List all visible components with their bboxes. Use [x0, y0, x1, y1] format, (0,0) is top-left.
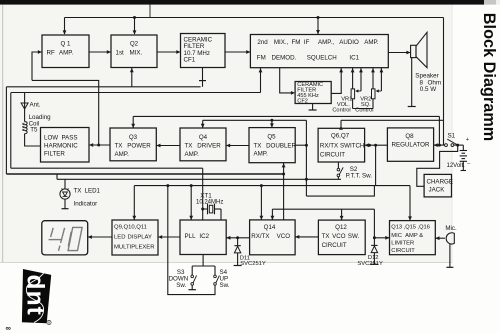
switch S4 UP	[214, 266, 216, 275]
block Q5 TX doubler amp	[249, 128, 295, 163]
node l4 PLL	[190, 184, 193, 187]
antenna Ant.	[24, 93, 26, 104]
wire riser into Q2 bottom	[131, 68, 133, 87]
wire left inner frame	[10, 93, 12, 169]
node D12	[373, 236, 376, 239]
wire l1 drop to crystal and PLL	[202, 168, 204, 220]
svg-text:S1: S1	[448, 133, 456, 140]
wire Q5 bottom feed from Q14	[283, 163, 285, 220]
svg-text:LOW: LOW	[44, 135, 58, 142]
svg-text:LIMITER: LIMITER	[391, 241, 414, 247]
block Q9 Q10 Q11 LED display multiplexer	[112, 220, 158, 255]
svg-text:RX/TX: RX/TX	[251, 233, 269, 240]
wire CF1 to IC1	[225, 51, 250, 53]
switch S3 DOWN	[191, 266, 193, 275]
svg-text:10.24MHz: 10.24MHz	[196, 199, 223, 205]
node switch feed 2	[374, 144, 377, 147]
svg-text:Q3: Q3	[129, 134, 138, 141]
svg-text:CIRCUIT: CIRCUIT	[320, 152, 345, 159]
svg-text:∞: ∞	[6, 324, 11, 333]
wire S4 return to l4	[168, 186, 215, 295]
svg-text:Mic.: Mic.	[445, 225, 457, 232]
wire coil to LPF	[25, 134, 41, 146]
svg-text:AUDIO: AUDIO	[339, 39, 359, 46]
block CF1 ceramic filter	[181, 34, 226, 68]
wire riser into IC1 bottom	[260, 68, 262, 93]
trimmer VR1 volume control	[352, 68, 354, 89]
wire Q5 to Q4	[226, 145, 249, 147]
svg-text:RX/TX: RX/TX	[320, 142, 338, 149]
top black bar	[0, 0, 484, 5]
diagram gray background	[0, 5, 452, 263]
svg-text:IF: IF	[304, 39, 310, 46]
svg-text:MIC AMP &: MIC AMP &	[391, 233, 423, 239]
LED TX LED1 indicator	[64, 179, 66, 189]
switch S2 PTT	[337, 162, 339, 168]
svg-text:IC1: IC1	[349, 55, 359, 62]
trimmer VR2 squelch control	[372, 68, 374, 89]
inductor T5 loading coil	[25, 122, 28, 134]
svg-text:JACK: JACK	[429, 187, 446, 194]
wire Q12 top drop	[341, 209, 343, 220]
digit 0	[68, 227, 82, 250]
digit 4	[49, 228, 65, 251]
svg-text:VCO: VCO	[332, 233, 346, 240]
node LPF-Q3 wire	[97, 144, 100, 147]
block IC1 2nd mix / FM IF amp / audio amp	[250, 35, 388, 68]
svg-text:Control: Control	[332, 107, 350, 113]
wire bus drop into Q1	[64, 18, 66, 35]
svg-text:dnt: dnt	[22, 275, 49, 316]
block Q12 TX VCO switch circuit	[318, 220, 365, 255]
block Q1 RF amp	[42, 35, 89, 68]
svg-text:SQUELCH: SQUELCH	[307, 55, 337, 62]
wire l6 right drop to VCO row	[373, 209, 375, 238]
svg-text:TX: TX	[322, 233, 330, 240]
wire Q2 to CF1	[157, 51, 181, 53]
wire V307 branch to l4 area	[306, 186, 374, 197]
svg-text:1st: 1st	[116, 50, 125, 57]
svg-text:Q 1: Q 1	[61, 41, 72, 48]
display 7-segment 40	[42, 221, 88, 255]
svg-text:DEMOD.: DEMOD.	[272, 55, 297, 62]
wire top supply bus	[65, 17, 444, 19]
wire Q1 to Q2	[89, 51, 111, 53]
svg-text:Q2: Q2	[130, 41, 139, 48]
svg-text:Q13 ,Q15 ,Q16: Q13 ,Q15 ,Q16	[391, 225, 430, 231]
wire l4 right drop into Q13	[409, 186, 411, 221]
block Q14 RX/TX VCO	[250, 220, 296, 255]
block Q8 regulator	[387, 128, 433, 161]
svg-text:12Volt.: 12Volt.	[447, 163, 466, 169]
wire Q5 right to V307	[295, 144, 306, 146]
node V307 l3	[305, 178, 308, 181]
svg-text:Q9,Q10,Q11: Q9,Q10,Q11	[114, 225, 147, 231]
wire ground bus upper	[6, 86, 200, 88]
node switch feed 1	[368, 144, 371, 147]
wire bus right drop to S1	[443, 18, 445, 146]
logo dnt	[22, 269, 52, 325]
wire busB drop into Q5	[271, 120, 273, 127]
wire l4 line	[134, 185, 410, 187]
wire CF2 return to IC1	[331, 68, 341, 94]
svg-text:POWER: POWER	[127, 143, 151, 150]
wire left outer frame	[5, 87, 7, 174]
svg-text:LED: LED	[114, 234, 125, 240]
ground CF1	[202, 68, 204, 87]
svg-text:FM: FM	[257, 55, 266, 62]
wire l2 line	[6, 173, 283, 175]
ground CF2	[312, 104, 314, 111]
battery 12 Volt	[462, 145, 464, 150]
svg-text:LED1: LED1	[85, 188, 101, 195]
node V307 Q5	[305, 144, 308, 147]
svg-text:T5: T5	[30, 127, 38, 134]
wire PLL bottom to S3/S4	[202, 255, 204, 267]
svg-text:IC2: IC2	[199, 233, 209, 240]
wire Q1-input feed from LPF node	[32, 80, 99, 145]
wire busB drop into Q4	[202, 120, 204, 128]
wire Q9 to display	[88, 236, 112, 238]
svg-text:SVC251Y: SVC251Y	[357, 261, 383, 267]
svg-text:Q14: Q14	[264, 224, 276, 231]
svg-text:AMP.: AMP.	[59, 50, 74, 57]
wire l6 line	[272, 208, 374, 210]
svg-text:MIX.: MIX.	[130, 50, 143, 57]
wire l4 drop into Q9 display driver	[133, 186, 135, 220]
block Q13 Q15 Q16 mic amp limiter	[390, 221, 436, 255]
svg-text:Q8: Q8	[405, 133, 414, 140]
wire busA right drop to S1 node	[438, 116, 440, 145]
wire into Q1 input	[32, 52, 42, 80]
svg-text:CF2: CF2	[297, 98, 308, 104]
node l2 end	[282, 173, 285, 176]
svg-text:Indicator: Indicator	[74, 201, 98, 208]
left page-edge shadow line	[2, 5, 4, 263]
svg-text:REGULATOR: REGULATOR	[392, 142, 430, 149]
node busA-S1	[438, 144, 441, 147]
wire bus drop into IC1	[317, 18, 319, 35]
svg-text:Q12: Q12	[335, 224, 347, 231]
svg-text:CIRCUIT: CIRCUIT	[322, 242, 347, 249]
block Q2 1st mixer	[111, 35, 157, 68]
svg-text:AMP.: AMP.	[254, 151, 269, 158]
svg-text:HARMONIC: HARMONIC	[44, 143, 78, 150]
node l4 Q14	[260, 184, 263, 187]
wire PLL to Q9	[158, 236, 180, 238]
block CF2 ceramic filter 455 KHz	[295, 82, 331, 104]
svg-text:AMP.: AMP.	[185, 151, 200, 158]
wire Q6 top riser	[340, 120, 342, 128]
svg-text:MULTIPLEXER: MULTIPLEXER	[114, 245, 154, 251]
block PLL IC2	[180, 220, 226, 255]
wire Q3 to LPF	[89, 144, 110, 146]
svg-text:Ant.: Ant.	[30, 102, 41, 109]
wire l1 line	[11, 167, 203, 169]
svg-text:Q4: Q4	[199, 134, 208, 141]
wire l6 left drop into Q14	[271, 209, 273, 219]
svg-text:2nd: 2nd	[257, 39, 268, 46]
svg-text:Block Diagramm: Block Diagramm	[480, 13, 498, 141]
svg-text:CF1: CF1	[184, 57, 196, 64]
wire Q4 to Q3	[156, 145, 180, 147]
block charge jack	[424, 174, 451, 197]
wire l3 line	[57, 178, 341, 180]
svg-text:VCO: VCO	[277, 233, 291, 240]
wire V307 vertical	[305, 120, 307, 196]
wire S1 feed from Q8	[434, 144, 445, 146]
svg-text:PASS: PASS	[62, 135, 78, 142]
block Q6 Q7 RX/TX switch circuit	[318, 128, 365, 162]
svg-text:FILTER: FILTER	[44, 150, 65, 157]
block Q4 TX driver amp	[180, 128, 226, 161]
wire Q14 to PLL	[226, 237, 249, 239]
node D11	[236, 236, 239, 239]
node battery	[456, 144, 459, 147]
node l4 S-return	[166, 184, 169, 187]
svg-text:DRIVER: DRIVER	[197, 143, 221, 150]
svg-text:MIX.,: MIX.,	[274, 39, 289, 46]
svg-text:Sw.: Sw.	[176, 282, 186, 289]
svg-text:TX: TX	[74, 188, 82, 195]
wire to Q13 left	[374, 237, 389, 239]
svg-text:Q5: Q5	[267, 134, 276, 141]
svg-text:TX: TX	[185, 143, 193, 150]
diode D12 SVC251Y	[373, 238, 375, 246]
svg-text:SW.: SW.	[348, 233, 360, 240]
svg-text:PLL: PLL	[185, 233, 197, 240]
svg-text:CHARGE: CHARGE	[427, 179, 453, 186]
svg-text:DOUBLER: DOUBLER	[266, 142, 296, 149]
wire l4 drop into PLL	[190, 186, 192, 220]
node bus-IC1	[317, 16, 320, 19]
wire Q8 to Q6Q7 switch	[365, 144, 388, 146]
speaker 8 Ohm 0.5 W	[411, 45, 416, 57]
svg-text:Sw.: Sw.	[220, 282, 230, 289]
wire V375 drop to l4	[375, 145, 377, 185]
microphone Mic.	[435, 237, 445, 239]
svg-text:TX: TX	[254, 142, 262, 149]
wire TX bus A	[133, 115, 439, 117]
wire IC1 to speaker	[388, 52, 410, 54]
svg-text:TX: TX	[115, 143, 123, 150]
node busB Q5	[270, 119, 273, 122]
wire bus drop into Q2	[134, 18, 136, 35]
svg-text:P.T.T. Sw.: P.T.T. Sw.	[346, 173, 373, 180]
svg-text:AMP.: AMP.	[115, 151, 130, 158]
wire charge jack feed	[417, 145, 458, 186]
node bus-Q2	[133, 16, 136, 19]
wire l4 drop into Q14	[260, 186, 262, 220]
wire scan stub above bus	[149, 5, 151, 18]
svg-text:SVC251Y: SVC251Y	[240, 261, 266, 267]
wire busA drop into Q3	[132, 116, 134, 128]
svg-text:RF: RF	[47, 50, 55, 57]
svg-text:+: +	[466, 137, 470, 143]
block low pass harmonic filter	[41, 128, 90, 163]
wire VR ground rail	[353, 108, 373, 110]
svg-text:AMP.,: AMP.,	[318, 39, 334, 46]
diode D11 SVC251Y	[237, 238, 239, 246]
wire S1 to battery	[454, 144, 464, 146]
wire Q12 to Q14	[295, 236, 318, 238]
wire RX line to IC1	[11, 92, 261, 94]
block Q3 TX power amp	[110, 128, 156, 161]
ground speaker	[411, 58, 413, 107]
wire IC1 to CF2	[280, 68, 292, 93]
svg-text:0.5 W: 0.5 W	[420, 86, 437, 93]
wire TX bus B left segment	[203, 119, 307, 121]
svg-text:CIRCUIT: CIRCUIT	[391, 248, 415, 254]
svg-text:FM: FM	[292, 39, 301, 46]
svg-text:Q6,Q7: Q6,Q7	[331, 133, 350, 140]
wire busB right segment from Q6 top	[341, 119, 444, 121]
svg-text:SWITCH: SWITCH	[340, 142, 364, 149]
svg-text:DISPLAY: DISPLAY	[128, 234, 153, 240]
svg-text:AMP.: AMP.	[364, 39, 379, 46]
